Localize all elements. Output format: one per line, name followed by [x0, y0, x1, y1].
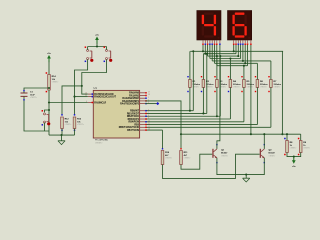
wire R5 top to bus — [243, 66, 245, 80]
wire BTN1 to R13/RA6 — [75, 59, 88, 114]
svg-text:RB0/INT: RB0/INT — [130, 111, 140, 113]
svg-text:17: 17 — [148, 91, 150, 93]
resistor R12 — [61, 114, 72, 131]
resistor R4 — [228, 76, 241, 92]
wire BTN2 top — [106, 47, 108, 50]
wire RB3 line — [145, 118, 230, 120]
junction — [229, 57, 231, 59]
resistor R6 — [255, 76, 268, 92]
capacitor C1 — [21, 92, 37, 99]
wire DISP2 common drop — [250, 45, 252, 134]
resistor R13 — [73, 114, 84, 131]
resistor R10 — [161, 148, 172, 164]
ground right — [243, 178, 250, 182]
svg-text:<TEXT>: <TEXT> — [30, 96, 37, 99]
resistor R11 — [180, 148, 191, 164]
wire DISP1 pin 1 drop — [204, 45, 206, 54]
wire RB2 riser — [219, 56, 221, 116]
wire RB7 down to R10 — [162, 130, 164, 149]
svg-text:<TEXT>: <TEXT> — [260, 86, 267, 89]
wire R14 bottom vertical — [48, 90, 50, 131]
junction — [293, 156, 295, 158]
svg-text:<TEXT>: <TEXT> — [77, 123, 84, 126]
wire BTN3 top — [45, 110, 50, 112]
junction — [237, 55, 239, 57]
wire Q2 collector — [263, 134, 265, 149]
wire R7 bottom to RB line — [270, 87, 272, 127]
svg-text:10: 10 — [148, 120, 150, 122]
svg-text:RB1/RX/DT: RB1/RX/DT — [127, 113, 140, 115]
wire C1 bottom — [24, 96, 49, 131]
MCU U1 PIC16F628A — [93, 86, 139, 144]
svg-text:RB2/TX/CK: RB2/TX/CK — [127, 116, 139, 118]
wire R10 to Q2 base — [163, 154, 260, 178]
wire R1 bottom to RB line — [189, 87, 191, 110]
wire segment-bus line 0 — [190, 50, 283, 52]
wire MCLR — [49, 102, 88, 104]
junction — [286, 133, 288, 135]
wire segment-bus line 4 — [212, 60, 271, 62]
svg-text:PIC16F628A: PIC16F628A — [95, 138, 108, 141]
junction — [281, 133, 283, 135]
wire RB6 line — [145, 126, 271, 128]
svg-text:<TEXT>: <TEXT> — [247, 86, 254, 89]
wire C1 top — [24, 88, 49, 93]
wire R12 bottom — [61, 129, 63, 136]
7-segment display DISP1 — [197, 11, 221, 41]
svg-text:RA1/AN1: RA1/AN1 — [129, 94, 140, 97]
wire DISP2 pin 3 drop — [240, 45, 242, 59]
junction — [219, 55, 221, 57]
wire R2 bottom to RB line — [202, 87, 204, 113]
svg-text:<TEXT>: <TEXT> — [184, 157, 191, 160]
wire DISP2 pin 0 drop — [233, 45, 235, 51]
push button BTN1 — [85, 46, 94, 62]
junction — [250, 133, 252, 135]
wire RB2 line — [145, 115, 220, 117]
svg-text:RB3/CCP1: RB3/CCP1 — [128, 119, 140, 121]
svg-text:<TEXT>: <TEXT> — [221, 154, 228, 157]
wire DISP1 pin 2 drop — [207, 45, 209, 56]
junction — [192, 50, 194, 52]
junction — [48, 109, 50, 111]
resistor R7 — [268, 76, 281, 92]
svg-text:RB5: RB5 — [134, 124, 139, 126]
junction — [263, 133, 265, 135]
wire R5 bottom to RB line — [243, 87, 245, 121]
wire ground stem — [61, 135, 63, 141]
junction — [73, 96, 75, 98]
wire RB4 line — [145, 121, 244, 123]
power terminal +5v left — [47, 53, 52, 62]
svg-text:<TEXT>: <TEXT> — [269, 154, 276, 157]
junction — [180, 133, 182, 135]
svg-text:18: 18 — [148, 94, 150, 96]
push button BTN2 — [104, 46, 113, 62]
junction — [216, 115, 218, 117]
svg-text:<TEXT>: <TEXT> — [95, 141, 103, 144]
svg-text:<TEXT>: <TEXT> — [290, 147, 297, 150]
wire R7 top to bus — [270, 61, 272, 80]
svg-text:12: 12 — [148, 126, 150, 128]
push button BTN3 reset — [42, 110, 51, 126]
svg-text:RA0/AN0: RA0/AN0 — [129, 92, 140, 95]
junction — [243, 65, 245, 67]
wire emitter ground rail — [217, 158, 264, 175]
wire R8 R9 bottom rail — [287, 153, 301, 157]
resistor R3 — [214, 76, 227, 92]
wire DISP2 pin 5 drop — [244, 45, 246, 63]
wire DISP2 pin 6 drop — [247, 45, 249, 66]
junction — [189, 110, 191, 112]
transistor Q1 — [212, 144, 228, 163]
svg-text:BC547: BC547 — [269, 152, 276, 155]
wire to R12 — [62, 86, 82, 114]
svg-text:BC547: BC547 — [221, 152, 228, 155]
wire R3 bottom to RB line — [216, 87, 218, 116]
svg-text:<TEXT>: <TEXT> — [52, 81, 59, 84]
junction — [245, 174, 247, 176]
wire +5v to R14 — [48, 62, 50, 75]
wire BTN2 to MCU — [82, 59, 107, 94]
wire R2 top to bus — [202, 54, 204, 80]
svg-text:<TEXT>: <TEXT> — [65, 123, 72, 126]
wire DISP1 pin 4 drop — [211, 45, 213, 61]
wire segment-bus line 3 — [210, 58, 241, 60]
wire DISP1 pin 5 drop — [214, 45, 216, 63]
junction — [244, 62, 246, 64]
wire RA4 stub — [145, 103, 156, 105]
svg-text:RB7/T1OSI: RB7/T1OSI — [127, 130, 139, 132]
wire BTN1 top — [87, 47, 89, 50]
svg-text:<TEXT>: <TEXT> — [165, 157, 172, 160]
resistor R2 — [201, 76, 214, 92]
svg-text:11: 11 — [148, 123, 150, 125]
wire DISP1 common to Q1 collector — [217, 45, 220, 149]
wire to OSC2 pin — [75, 96, 88, 98]
wire R13 bottom — [74, 129, 76, 136]
resistor R1 — [187, 76, 200, 92]
ground left — [58, 141, 65, 145]
wire DISP1 pin 0 drop — [202, 45, 204, 51]
svg-text:330ohm: 330ohm — [260, 84, 268, 86]
junction — [81, 85, 83, 87]
wire DISP1 pin 6 drop — [216, 45, 218, 66]
junction — [48, 101, 50, 103]
wire segment-bus line 5 — [215, 62, 258, 64]
resistor R9 — [298, 138, 310, 156]
node probe RA4 — [156, 102, 159, 105]
svg-text:330ohm: 330ohm — [233, 84, 241, 86]
svg-text:13: 13 — [148, 129, 150, 131]
svg-text:RA3/AN3/CMP1: RA3/AN3/CMP1 — [122, 100, 140, 103]
svg-text:RB4/PGM: RB4/PGM — [129, 121, 140, 124]
wire RB7 line — [145, 129, 162, 131]
svg-text:<TEXT>: <TEXT> — [303, 147, 310, 150]
power terminal +5v down right — [292, 157, 297, 168]
wire R8 top — [286, 134, 288, 140]
transistor Q2 — [260, 144, 276, 163]
junction — [96, 45, 98, 47]
svg-text:<TEXT>: <TEXT> — [233, 86, 240, 89]
resistor R14 — [46, 72, 59, 92]
svg-text:330ohm: 330ohm — [274, 84, 282, 86]
wire DISP2 pin 2 drop — [237, 45, 239, 56]
svg-text:<TEXT>: <TEXT> — [274, 86, 281, 89]
display DISP2 pins — [233, 40, 252, 45]
wire R4 bottom to RB line — [229, 87, 231, 119]
wire +5v stem — [96, 43, 98, 47]
svg-text:U1: U1 — [94, 86, 98, 90]
wire R9 top — [300, 134, 302, 140]
wire RB1 riser — [206, 54, 208, 114]
svg-text:RA6/OSC2/CLKOUT: RA6/OSC2/CLKOUT — [94, 96, 116, 99]
7-segment display DISP2 — [228, 11, 252, 41]
wire R6 bottom to RB line — [256, 87, 258, 124]
junction — [233, 50, 235, 52]
wire collector rail — [181, 133, 301, 135]
junction — [242, 60, 244, 62]
wire segment-bus line 2 — [208, 55, 239, 57]
svg-text:RA2/AN2/VREF: RA2/AN2/VREF — [122, 97, 139, 100]
junction — [204, 53, 206, 55]
MCU U1 right pins RB — [119, 109, 150, 132]
svg-text:RB6/T1OSO/T1CKI: RB6/T1OSO/T1CKI — [119, 127, 140, 129]
wire riser rail to top bus line — [281, 51, 283, 134]
display DISP1 pins — [202, 40, 220, 45]
resistor R5 — [241, 76, 254, 92]
MCU U1 right pins RA — [120, 91, 150, 105]
junction — [202, 50, 204, 52]
wire BTN3 bottom — [44, 122, 46, 131]
wire left rail join — [48, 131, 50, 135]
wire RB1 line — [145, 112, 207, 114]
wire R11 to Q1 base — [181, 154, 212, 169]
wire DISP2 pin 1 drop — [235, 45, 237, 54]
wire RB5 line — [145, 124, 257, 126]
junction — [60, 134, 62, 136]
wire DISP1 pin 3 drop — [209, 45, 211, 59]
wire button rail — [88, 46, 107, 48]
wire RA3 to R11 — [145, 101, 181, 150]
wire R3 top to bus — [216, 56, 218, 79]
wire ground rail left — [49, 134, 75, 136]
wire R4 top to bus — [229, 59, 231, 80]
wire R6 top to bus — [256, 63, 258, 79]
wire ground stem right — [245, 175, 247, 179]
resistor R8 — [284, 138, 296, 156]
MCU U1 left pins — [85, 93, 116, 105]
svg-text:RA4/T0CKI/CMP2: RA4/T0CKI/CMP2 — [120, 103, 140, 106]
wire DISP2 pin 4 drop — [242, 45, 244, 61]
wire segment-bus line 6 — [217, 65, 248, 67]
junction — [48, 87, 50, 89]
wire RB0 line — [145, 110, 193, 112]
svg-text:RA5/MCLR: RA5/MCLR — [94, 101, 106, 104]
wire R1 top to bus — [189, 51, 191, 79]
svg-text:330ohm: 330ohm — [247, 84, 255, 86]
junction — [216, 55, 218, 57]
junction — [206, 53, 208, 55]
wire segment-bus line 1 — [203, 53, 236, 55]
power terminal +5v top — [95, 34, 100, 43]
wire RB0 riser — [192, 51, 194, 110]
junction — [202, 112, 204, 114]
